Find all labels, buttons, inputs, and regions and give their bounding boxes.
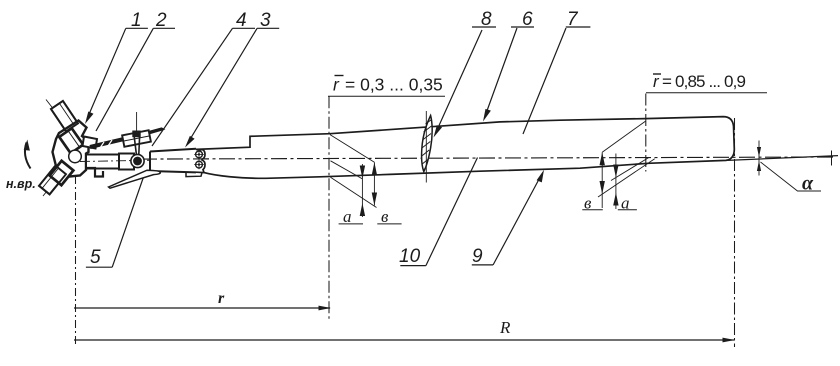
right label a underline bbox=[618, 209, 637, 211]
svg-text:5: 5 bbox=[90, 247, 101, 268]
svg-text:1: 1 bbox=[131, 10, 142, 31]
R dimension arrow bbox=[723, 338, 736, 343]
leader 8 arrow bbox=[434, 125, 443, 137]
leader 6 arrow bbox=[483, 109, 491, 122]
svg-text:= 0,85 ... 0,9: = 0,85 ... 0,9 bbox=[662, 72, 746, 91]
right section transfer line bottom bbox=[598, 159, 655, 197]
hub upper-left arm pin bbox=[51, 101, 78, 131]
hub center circle bbox=[69, 150, 82, 163]
pitch bearing outer bbox=[131, 154, 144, 167]
pitch arm axis bbox=[80, 160, 152, 161]
leader 4 bbox=[152, 28, 233, 146]
turnbuckle body bbox=[122, 130, 151, 147]
lower arm sleeve bbox=[50, 161, 74, 185]
svg-text:9: 9 bbox=[472, 246, 483, 267]
leader 5 bbox=[112, 177, 143, 267]
hub lower step bracket bbox=[86, 168, 103, 177]
r=0,3 text underline bbox=[328, 95, 445, 97]
right dim a up arrow bbox=[613, 193, 618, 206]
svg-text:н.вр.: н.вр. bbox=[6, 177, 36, 191]
R dimension line bbox=[74, 339, 734, 341]
label 1 underline bbox=[126, 27, 148, 29]
svg-text:α: α bbox=[802, 173, 814, 195]
leader 1 bbox=[87, 28, 126, 119]
left section transfer line middle bbox=[331, 161, 363, 179]
right section transfer line middle bbox=[611, 157, 649, 180]
right label v underline bbox=[582, 209, 603, 211]
svg-text:в: в bbox=[584, 194, 592, 213]
r=0,3 overbar bbox=[335, 75, 344, 77]
leader 3 arrow bbox=[185, 136, 195, 148]
label 4 underline bbox=[233, 27, 256, 29]
blade axis extension line (forms angle alpha) bbox=[728, 156, 839, 161]
left dim v vertical bbox=[373, 162, 375, 205]
r dimension line bbox=[74, 307, 330, 309]
label 8 underline bbox=[472, 26, 496, 28]
leader 2 bbox=[96, 28, 153, 131]
alpha up arrow bbox=[757, 161, 761, 172]
leader 8 bbox=[437, 30, 482, 130]
bolt upper bbox=[196, 151, 203, 158]
svg-text:7: 7 bbox=[567, 9, 579, 30]
lower lug plate below root bbox=[186, 172, 202, 176]
svg-text:3: 3 bbox=[260, 10, 271, 31]
hub lower-left arm pin bbox=[39, 166, 66, 195]
left section transfer line bottom bbox=[331, 177, 377, 207]
alpha leader bbox=[761, 162, 822, 191]
right dim a vertical bbox=[615, 154, 617, 210]
label 7 underline bbox=[566, 26, 591, 28]
svg-text:2: 2 bbox=[155, 10, 167, 31]
rod hatch ticks bbox=[100, 142, 104, 148]
label 2 underline bbox=[153, 27, 175, 29]
airfoil hatching bbox=[422, 120, 432, 171]
hub lower-left arm axis bbox=[43, 155, 76, 196]
upper arm pin outline overlay bbox=[51, 101, 78, 131]
centerline end tick bbox=[831, 151, 833, 166]
left label v underline bbox=[377, 223, 401, 225]
tip extension vertical (R) bbox=[734, 118, 736, 347]
lower arm pin outline overlay bbox=[39, 166, 66, 195]
blade grip bbox=[150, 149, 196, 173]
blade outline bbox=[196, 117, 734, 179]
alpha dimension vertical bbox=[758, 141, 760, 176]
leader 9 bbox=[493, 176, 541, 265]
left label a underline bbox=[339, 223, 363, 225]
label 5 underline bbox=[86, 266, 112, 268]
alpha down arrow bbox=[757, 147, 761, 157]
hub body bbox=[53, 121, 89, 178]
right dim v up arrow bbox=[600, 152, 605, 165]
r dimension arrow bbox=[319, 306, 332, 311]
leader 1 arrow bbox=[85, 112, 94, 125]
leader 3 bbox=[188, 28, 258, 143]
svg-text:= 0,3 ... 0,35: = 0,3 ... 0,35 bbox=[345, 75, 443, 95]
right dim v vertical bbox=[601, 152, 603, 208]
right dim v down arrow bbox=[600, 181, 605, 194]
label 6 underline bbox=[511, 26, 534, 28]
svg-text:a: a bbox=[343, 207, 352, 226]
pitch link rod bbox=[90, 139, 124, 147]
right section transfer line top bbox=[602, 121, 645, 152]
svg-text:a: a bbox=[621, 194, 630, 213]
hub circle horizontal tick bbox=[66, 156, 85, 158]
svg-text:в: в bbox=[381, 207, 389, 226]
trim flap bbox=[109, 170, 161, 188]
airfoil section vertical line bbox=[425, 111, 427, 183]
hub upper-left arm axis bbox=[46, 100, 84, 149]
left dim v down arrow bbox=[372, 193, 377, 206]
leader 10 bbox=[426, 158, 478, 266]
T link top blob bbox=[132, 131, 140, 138]
hub axis vertical bbox=[75, 144, 77, 344]
hub top bracket bbox=[83, 137, 98, 149]
label 9 underline bbox=[472, 264, 493, 266]
rotation direction curved arrow bbox=[25, 143, 31, 169]
leader 7 bbox=[523, 28, 566, 134]
left section transfer line top bbox=[330, 135, 374, 163]
pitch arm rect 2 bbox=[119, 154, 134, 170]
section line r=0,3 vertical bbox=[328, 96, 330, 319]
airfoil cross-section outline bbox=[422, 116, 433, 172]
pitch arm rect 1 bbox=[86, 155, 119, 169]
svg-text:r: r bbox=[218, 290, 225, 307]
bolt lower bbox=[196, 161, 203, 168]
T link vertical centerline bbox=[136, 112, 138, 133]
main blade centerline bbox=[63, 157, 834, 159]
left dim a vertical bbox=[361, 164, 363, 217]
rotation arrow head bbox=[24, 140, 30, 151]
svg-text:8: 8 bbox=[481, 9, 492, 30]
pitch rod tip bbox=[150, 128, 164, 133]
blade root upper lug with bolt bumps bbox=[196, 149, 205, 172]
svg-text:R: R bbox=[499, 318, 511, 337]
T link body bbox=[134, 137, 139, 155]
label 10 underline bbox=[400, 265, 426, 267]
upper arm sleeve bbox=[59, 128, 83, 153]
leader 6 bbox=[486, 28, 517, 114]
svg-text:4: 4 bbox=[236, 10, 247, 31]
right dim a down arrow bbox=[613, 165, 618, 178]
r=0,85 text underline bbox=[646, 92, 767, 94]
r=0,85 overbar bbox=[653, 73, 661, 75]
svg-text:10: 10 bbox=[399, 246, 421, 267]
left dim a up arrow bbox=[360, 203, 365, 216]
label 3 underline bbox=[257, 27, 279, 29]
pitch bearing inner bbox=[133, 157, 142, 166]
left dim v up arrow bbox=[372, 162, 377, 175]
left dim a down arrow bbox=[360, 166, 365, 179]
svg-text:6: 6 bbox=[522, 9, 533, 30]
section line r=0,85 vertical bbox=[645, 94, 647, 172]
leader 9 arrow bbox=[537, 170, 544, 183]
